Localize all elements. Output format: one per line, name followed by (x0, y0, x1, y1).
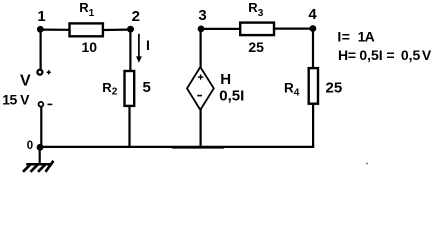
wire R3 to node4 (274, 28, 313, 30)
svg-text:R3: R3 (248, 0, 263, 19)
svg-text:I: I (146, 37, 150, 53)
stray ink speck (366, 163, 368, 165)
resistor R2 (125, 71, 135, 106)
resistor R4 (309, 68, 318, 104)
resistor R1 (70, 23, 103, 36)
wire node3 down to source (200, 29, 202, 67)
node 1 junction dot (37, 26, 44, 33)
svg-text:25: 25 (326, 80, 343, 97)
node 4 junction dot (310, 25, 317, 32)
svg-text:4: 4 (308, 6, 317, 23)
node 0 junction dot (37, 144, 44, 151)
svg-text:H: H (220, 71, 231, 88)
svg-text:15 V: 15 V (2, 92, 30, 108)
svg-text:1: 1 (37, 8, 45, 25)
current arrow I (136, 34, 142, 63)
svg-text:10: 10 (82, 39, 98, 55)
ground hatching (23, 161, 54, 172)
wire R2 to bottom (128, 106, 130, 148)
svg-text:2: 2 (132, 8, 140, 25)
svg-text:R2: R2 (102, 80, 117, 98)
wire node2 down to R2 (129, 29, 131, 71)
wire node4 down to R4 (312, 29, 314, 69)
bottom wire thicker segment (172, 147, 224, 149)
ground stub (39, 147, 41, 164)
+ sign of source (47, 70, 51, 74)
svg-text:V: V (20, 73, 31, 90)
bottom wire (39, 146, 314, 148)
svg-text:I=1A: I=1A (337, 28, 374, 44)
svg-text:5: 5 (143, 79, 151, 96)
- sign of source (48, 103, 53, 105)
- sign inside diamond (197, 95, 202, 97)
+ terminal circle of source (37, 70, 42, 75)
wire source to bottom (200, 110, 202, 147)
wire - terminal to node0 (40, 107, 42, 146)
svg-text:H=0,5I=0,5V: H=0,5I=0,5V (338, 47, 432, 63)
wire node1 to R1 (40, 29, 69, 31)
node 2 junction dot (127, 26, 134, 33)
wire R4 to bottom (312, 104, 314, 148)
dependent source H (diamond) (187, 67, 214, 110)
- terminal circle of source (39, 102, 44, 107)
svg-text:R1: R1 (79, 0, 94, 19)
wire node1 down to + terminal (39, 29, 41, 69)
svg-text:3: 3 (198, 7, 206, 24)
svg-text:25: 25 (248, 39, 264, 55)
+ sign inside diamond (198, 75, 203, 80)
svg-text:0,5I: 0,5I (219, 87, 244, 104)
ground bar (26, 163, 52, 166)
resistor R3 (240, 23, 274, 35)
svg-text:0: 0 (27, 140, 33, 152)
node 3 junction dot (198, 26, 205, 33)
wire R1 to node2 (103, 29, 132, 32)
svg-text:R4: R4 (284, 81, 300, 99)
wire node3 to R3 (201, 28, 240, 30)
